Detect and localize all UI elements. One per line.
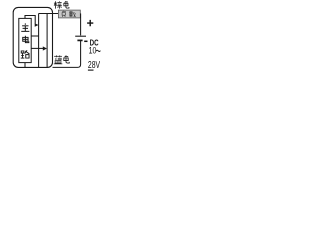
top wire (brown rail inside box): [39, 13, 81, 15]
wire main circuit bottom to blue rail: [24, 63, 26, 68]
tilde of 10~: [96, 50, 101, 51]
label 电: [23, 36, 29, 43]
sensor outline (rounded box): [13, 7, 52, 67]
svg-text:28V: 28V: [88, 59, 100, 71]
transistor Q1 collector-emitter rail: [38, 14, 40, 68]
label 路: [21, 50, 30, 58]
svg-text:10: 10: [89, 44, 97, 55]
transistor Q2 rail: [46, 14, 48, 68]
load box RL (负载): [58, 10, 80, 18]
wire from main circuit top to transistor Q1 base: [25, 16, 35, 24]
plus label: [87, 20, 93, 26]
main circuit box U1 (主电路): [19, 18, 31, 62]
label 蓝色 (blue): [54, 55, 63, 63]
wire load to battery positive: [80, 14, 82, 36]
wire from main circuit to transistor Q2 base: [31, 47, 43, 49]
battery BT1 positive plate: [75, 35, 86, 37]
transistor Q2 arrow: [43, 46, 47, 50]
label 棕色 (brown): [54, 1, 62, 9]
battery BT1 negative plate: [77, 39, 82, 41]
minus label: [84, 40, 87, 42]
wire mid from main circuit to rail: [31, 35, 38, 37]
label 主: [21, 23, 29, 31]
transistor Q1 arrow: [35, 23, 39, 27]
underline under 28: [88, 69, 94, 71]
wire battery negative to blue wire: [53, 40, 81, 67]
